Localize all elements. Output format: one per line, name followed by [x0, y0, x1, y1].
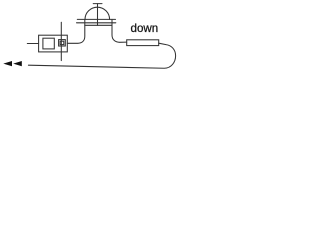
valve stem — [60, 22, 62, 60]
outlet pipe with return bend and drain line — [28, 43, 175, 68]
vent dome arc — [85, 7, 110, 19]
pipe sleeve — [127, 40, 159, 46]
dome handle T-bar — [93, 3, 102, 5]
flow arrow 1 — [3, 61, 12, 66]
dome flange line lower — [77, 22, 116, 24]
inner box left — [43, 38, 54, 49]
flow arrow 2 — [13, 61, 22, 66]
fixture outer box — [39, 35, 68, 52]
inner box right outer wall — [59, 40, 66, 46]
dome inner seat line — [85, 24, 112, 26]
pipe from box curving up to dome left leg — [67, 19, 85, 43]
dome right leg curving to outlet pipe — [112, 19, 127, 42]
inlet pipe — [27, 43, 38, 45]
dome handle stem — [97, 4, 99, 26]
svg-text:down: down — [131, 22, 159, 35]
dome flange line upper — [77, 18, 115, 20]
inner box right inner wall — [60, 41, 64, 44]
